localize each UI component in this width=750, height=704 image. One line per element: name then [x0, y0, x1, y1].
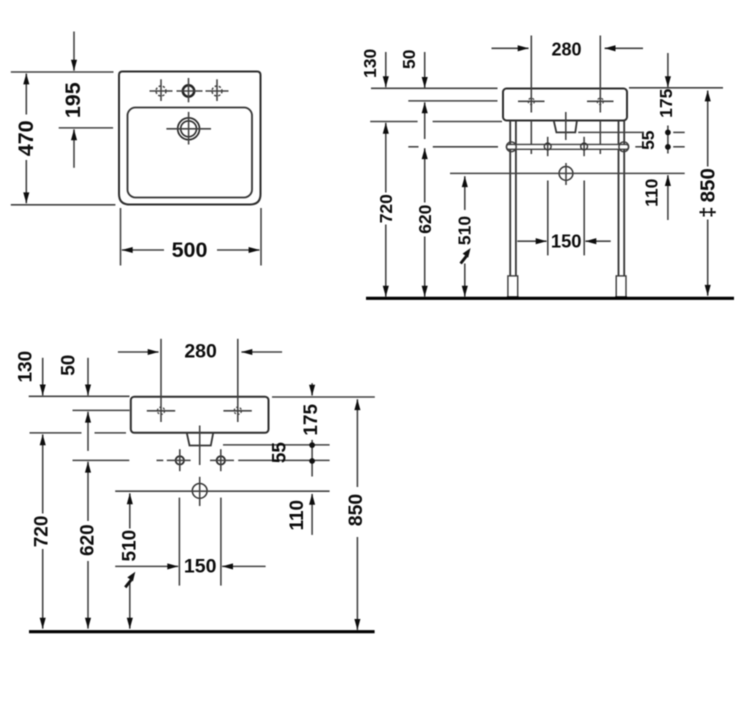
svg-text:620: 620 — [78, 524, 99, 556]
svg-text:195: 195 — [61, 82, 85, 118]
svg-text:280: 280 — [184, 341, 217, 363]
svg-text:50: 50 — [399, 49, 419, 69]
svg-text:510: 510 — [454, 216, 474, 245]
svg-text:470: 470 — [14, 120, 38, 156]
svg-text:150: 150 — [551, 231, 582, 252]
svg-text:720: 720 — [32, 516, 53, 548]
svg-text:50: 50 — [59, 355, 80, 376]
svg-text:130: 130 — [360, 49, 380, 78]
svg-text:175: 175 — [301, 404, 322, 436]
svg-text:510: 510 — [119, 530, 140, 562]
svg-text:280: 280 — [551, 39, 581, 59]
svg-text:500: 500 — [172, 238, 208, 262]
svg-text:150: 150 — [184, 555, 217, 577]
svg-text:130: 130 — [15, 351, 36, 383]
svg-text:‡ 850: ‡ 850 — [697, 168, 720, 218]
svg-text:175: 175 — [656, 88, 676, 117]
svg-text:55: 55 — [269, 442, 290, 464]
svg-text:110: 110 — [642, 178, 662, 206]
svg-text:850: 850 — [345, 494, 367, 527]
svg-text:620: 620 — [415, 204, 435, 233]
svg-text:110: 110 — [287, 500, 308, 531]
svg-text:720: 720 — [376, 194, 396, 223]
